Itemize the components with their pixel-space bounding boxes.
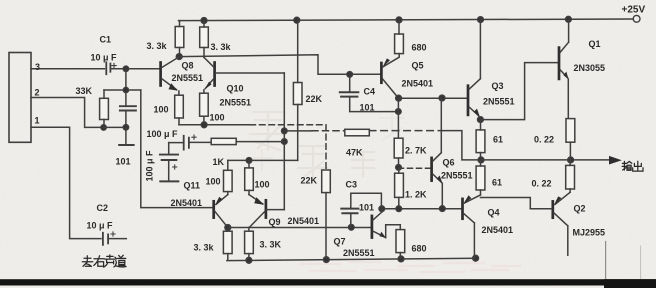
svg-text:100: 100 xyxy=(206,177,221,187)
svg-text:0. 22: 0. 22 xyxy=(534,135,554,145)
wire dashed to 47K xyxy=(312,130,345,132)
svg-text:Q2: Q2 xyxy=(574,204,586,214)
lead 2.7K bottom xyxy=(398,158,400,167)
transistor Q11 xyxy=(214,195,228,228)
transistor Q8 xyxy=(161,57,180,95)
svg-text:10 μ F: 10 μ F xyxy=(91,53,118,63)
leads 3.3k a xyxy=(179,21,181,57)
resistor 1.2K xyxy=(395,173,404,197)
capacitor C1 xyxy=(106,62,110,74)
leads 3.3k loads xyxy=(228,254,249,261)
node C3 bottom dot xyxy=(349,225,355,231)
wire output line xyxy=(481,159,611,161)
node dot C3 loop xyxy=(379,206,385,212)
resistor 3.3K Q9 load xyxy=(245,231,254,253)
svg-text:2N5401: 2N5401 xyxy=(482,225,514,235)
svg-text:100 μ F: 100 μ F xyxy=(147,129,179,139)
transistor Q1 xyxy=(559,19,569,118)
wire Q5c down to 2.7K xyxy=(397,98,399,138)
rail dot R2 xyxy=(201,18,207,24)
label chinese qu (go) xyxy=(82,256,93,267)
node 0.22a dot xyxy=(568,157,574,163)
resistor R 3.3k b xyxy=(200,27,209,48)
capacitor 100uF vertical xyxy=(160,155,178,160)
node output dot xyxy=(478,157,484,163)
node upper tail dot xyxy=(201,122,207,128)
svg-text:C2: C2 xyxy=(97,203,109,213)
wire dashed Q6 base xyxy=(399,167,431,169)
svg-text:101: 101 xyxy=(116,157,131,167)
capacitor 100uF horizontal xyxy=(184,136,189,150)
plus mark xyxy=(192,135,196,139)
wire to cap 101 xyxy=(104,126,126,128)
node lower tail dot xyxy=(246,158,252,164)
watermark blob 1 xyxy=(250,112,374,176)
wire long vertical to Q11 base xyxy=(141,90,213,208)
svg-text:3. 3k: 3. 3k xyxy=(211,42,232,52)
svg-text:Q9: Q9 xyxy=(269,217,281,227)
rail dot a xyxy=(246,257,252,263)
transistor Q9 xyxy=(249,195,284,232)
leads 22K upper xyxy=(297,20,299,160)
watermark pink band xyxy=(300,262,520,272)
capacitor 101 shunt xyxy=(120,90,136,127)
svg-text:2N3055: 2N3055 xyxy=(574,63,606,73)
svg-text:+25V: +25V xyxy=(622,5,646,16)
rail dot b xyxy=(323,257,329,263)
node Q8 collector dot xyxy=(176,54,182,60)
watermark blob 2 xyxy=(252,110,404,170)
svg-text:Q1: Q1 xyxy=(589,39,601,49)
rail dot 22K xyxy=(294,17,300,23)
node 33K bottom dot xyxy=(101,125,106,130)
svg-text:Q7: Q7 xyxy=(334,237,346,247)
svg-text:Q6: Q6 xyxy=(443,158,455,168)
wire C1 to Q8 base xyxy=(110,68,160,70)
svg-text:47K: 47K xyxy=(346,148,363,158)
svg-text:61: 61 xyxy=(492,178,502,188)
svg-text:1: 1 xyxy=(35,116,40,126)
C1 plus mark xyxy=(112,63,116,67)
svg-text:2N5551: 2N5551 xyxy=(343,248,375,258)
capacitor 101 input lead xyxy=(125,127,127,145)
transistor Q10 xyxy=(204,57,215,93)
svg-text:3. 3k: 3. 3k xyxy=(147,41,168,51)
svg-text:2N5401: 2N5401 xyxy=(171,198,203,208)
svg-text:Q3: Q3 xyxy=(492,81,504,91)
+25V terminal circle xyxy=(633,15,640,22)
svg-text:33K: 33K xyxy=(76,86,93,96)
node C4 dot xyxy=(347,72,353,78)
svg-text:61: 61 xyxy=(493,135,503,145)
svg-text:Q10: Q10 xyxy=(227,84,244,94)
wire line A Q8c to Q5 base xyxy=(179,55,381,74)
ground bar input 101 xyxy=(119,144,133,146)
top rail +25V xyxy=(179,19,634,21)
lead 0.22a bottom xyxy=(569,142,571,160)
leads 0.22b xyxy=(569,160,571,192)
output arrowhead xyxy=(609,156,622,165)
wire 1K to NFB node xyxy=(236,141,284,143)
wire input node down xyxy=(125,69,127,90)
svg-text:2N5401: 2N5401 xyxy=(288,216,320,226)
svg-text:Q5: Q5 xyxy=(412,61,424,71)
rail dot c xyxy=(398,256,404,262)
bottom border right block xyxy=(604,279,656,288)
node Q6 collector dot xyxy=(439,95,445,101)
svg-text:100: 100 xyxy=(154,105,169,115)
wire output branch xyxy=(441,131,481,160)
resistor 100 Q11 emitter xyxy=(224,170,233,191)
wire pin2 step xyxy=(31,98,103,128)
C2 plus mark xyxy=(111,232,115,236)
svg-text:3. 3k: 3. 3k xyxy=(194,243,215,253)
rail dot d xyxy=(473,255,479,261)
resistor 1K horizontal xyxy=(211,138,236,144)
wire NFB vertical column xyxy=(283,73,285,210)
bottom border bar xyxy=(0,279,656,285)
svg-text:2N5551: 2N5551 xyxy=(172,73,204,83)
svg-text:Q8: Q8 xyxy=(182,61,194,71)
wire cap node xyxy=(169,141,212,143)
svg-text:22K: 22K xyxy=(301,176,318,186)
resistor 0.22 upper xyxy=(566,119,575,143)
transistor Q2 xyxy=(530,192,570,255)
leads 100 pair xyxy=(179,116,204,125)
svg-text:1K: 1K xyxy=(213,157,225,167)
label chinese shu (output-1) xyxy=(622,161,632,170)
svg-text:2: 2 xyxy=(35,88,40,98)
leads 100uF vertical xyxy=(168,143,170,182)
resistor 61 upper xyxy=(476,130,485,153)
wire dashed down to 22Kb xyxy=(325,125,327,170)
leads 100 lower pair xyxy=(228,160,249,194)
label chinese sheng (sound) xyxy=(104,255,116,267)
ground bar 100uF xyxy=(160,180,178,182)
svg-text:2N5551: 2N5551 xyxy=(220,98,252,108)
plus mark xyxy=(173,165,177,169)
resistor 100 Q10 emitter xyxy=(200,93,209,116)
wire upper tail dashed to 22Kb xyxy=(250,124,326,126)
resistor R 3.3k a xyxy=(175,27,184,48)
wire lower tail xyxy=(228,159,298,161)
transistor Q3 xyxy=(468,20,480,117)
wire dashed 47K to output branch xyxy=(369,130,441,132)
transistor Q7 xyxy=(372,209,400,238)
wire upper tail xyxy=(179,124,250,126)
wire Q11c to Q7 base xyxy=(228,227,371,229)
resistor 0.22 lower xyxy=(566,165,575,189)
node input dot xyxy=(123,66,128,71)
wire pin3 to C1 xyxy=(31,68,105,70)
node Q11 collector dot xyxy=(225,225,231,231)
svg-text:C3: C3 xyxy=(346,180,358,190)
svg-text:1. 2K: 1. 2K xyxy=(405,190,427,200)
resistor 2.7K xyxy=(394,138,403,158)
node NFB 47K dot xyxy=(282,128,288,134)
resistor 47K horizontal xyxy=(345,129,370,136)
svg-text:2. 7K: 2. 7K xyxy=(405,146,427,156)
wire C2 stub xyxy=(108,238,126,240)
svg-text:101: 101 xyxy=(360,103,375,113)
wire Q10 base to NFB column xyxy=(216,72,284,74)
rail dot Q1 xyxy=(566,16,572,22)
svg-text:22K: 22K xyxy=(306,94,323,104)
svg-text:0. 22: 0. 22 xyxy=(532,179,552,189)
wire 33K leads xyxy=(103,90,105,127)
capacitor C4 xyxy=(340,74,399,111)
bottom rail xyxy=(227,258,477,260)
rail dot Q3 xyxy=(478,17,484,23)
resistor 100 Q9 emitter xyxy=(245,168,254,191)
wire Q5c to Q3 base xyxy=(399,97,468,99)
resistor 3.3k Q11 load xyxy=(223,231,232,253)
svg-text:Q11: Q11 xyxy=(184,181,201,191)
scan crease line far right xyxy=(640,246,642,288)
resistor 680 Q5 xyxy=(395,34,404,54)
svg-text:10 μ F: 10 μ F xyxy=(87,221,114,231)
wire Q4 base line xyxy=(382,208,462,210)
resistor 61 lower xyxy=(476,166,485,190)
label chinese dao (channel) xyxy=(114,255,126,267)
svg-text:Q4: Q4 xyxy=(488,208,500,218)
transistor Q5 xyxy=(381,54,399,99)
connector J1 xyxy=(9,53,31,143)
capacitor C3 xyxy=(341,193,381,227)
node dot 1.2K bottom xyxy=(396,206,402,212)
lead 680b bottom xyxy=(399,253,401,259)
resistor 22K upper tail xyxy=(293,83,302,105)
rail dot 680 xyxy=(396,17,402,23)
leads 61 lower xyxy=(480,160,482,195)
resistor 33K xyxy=(100,98,109,119)
svg-text:100: 100 xyxy=(255,180,270,190)
node dot xyxy=(123,125,128,130)
svg-text:MJ2955: MJ2955 xyxy=(573,228,606,238)
scan crease line right xyxy=(605,242,607,288)
node C4 to 2.7K dot xyxy=(396,109,402,115)
resistor 680 Q7 xyxy=(396,230,405,253)
svg-text:3. 3K: 3. 3K xyxy=(260,240,282,250)
node Q6 base dot xyxy=(396,165,402,171)
svg-text:C1: C1 xyxy=(100,35,112,45)
node dot xyxy=(123,87,128,92)
label chinese you (right) xyxy=(94,256,105,267)
lead 22Kb bottom xyxy=(325,193,327,260)
resistor 100 Q8 emitter xyxy=(175,95,184,118)
svg-text:680: 680 xyxy=(412,43,427,53)
node dot Q6 emitter xyxy=(440,206,446,212)
svg-text:2N5551: 2N5551 xyxy=(441,171,473,181)
wire 33K top node xyxy=(104,89,141,91)
svg-text:101: 101 xyxy=(359,203,374,213)
node Q3 emitter dot xyxy=(478,117,484,123)
lead 680 top xyxy=(398,20,400,34)
capacitor C2 xyxy=(103,233,108,245)
svg-text:100 μ F: 100 μ F xyxy=(145,150,155,182)
leads 3.3k b xyxy=(203,21,205,58)
leads 61 upper xyxy=(480,120,482,160)
resistor 22K tail lower xyxy=(322,170,331,193)
svg-text:2N5551: 2N5551 xyxy=(483,97,515,107)
svg-text:3: 3 xyxy=(35,62,40,72)
leads 1.2K xyxy=(398,167,400,208)
wire pin1 down to C2 xyxy=(31,127,101,238)
svg-text:680: 680 xyxy=(412,244,427,254)
wire NFB to 47K solid xyxy=(284,130,312,132)
node Q5 collector dot xyxy=(396,95,402,101)
svg-text:C4: C4 xyxy=(364,87,376,97)
svg-text:100: 100 xyxy=(210,113,225,123)
wire Q3e to Q1 base xyxy=(480,63,558,120)
label chinese chu (output-2) xyxy=(633,161,643,171)
node NFB 1K dot xyxy=(282,139,288,145)
transistor Q6 xyxy=(432,98,443,209)
wire Q2 base route xyxy=(481,198,531,209)
svg-text:2N5401: 2N5401 xyxy=(402,79,434,89)
transistor Q4 xyxy=(463,195,481,258)
